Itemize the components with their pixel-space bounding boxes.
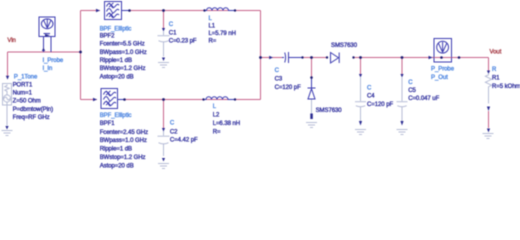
svg-text:Vin: Vin — [7, 38, 15, 44]
svg-text:C=120 pF: C=120 pF — [275, 85, 302, 91]
svg-text:BPF1: BPF1 — [100, 121, 116, 127]
svg-text:P_Probe: P_Probe — [431, 67, 455, 73]
svg-text:L=6.38 nH: L=6.38 nH — [213, 121, 240, 127]
svg-text:C: C — [169, 22, 174, 28]
svg-text:I_In: I_In — [43, 66, 53, 72]
svg-text:BPF_Elliptic: BPF_Elliptic — [100, 113, 132, 119]
svg-text:BWpass=1.0 GHz: BWpass=1.0 GHz — [100, 138, 147, 144]
svg-text:BPF_Elliptic: BPF_Elliptic — [100, 27, 132, 33]
svg-text:P_1Tone: P_1Tone — [14, 74, 38, 80]
svg-text:Astop=20 dB: Astop=20 dB — [100, 74, 134, 80]
svg-text:I_Probe: I_Probe — [43, 58, 64, 64]
svg-text:BWstop=1.2 GHz: BWstop=1.2 GHz — [100, 66, 146, 72]
svg-text:R=5 kOhm: R=5 kOhm — [492, 84, 520, 90]
svg-text:C=120 pF: C=120 pF — [367, 102, 394, 108]
svg-text:L1: L1 — [209, 24, 216, 30]
svg-text:R=: R= — [209, 39, 217, 45]
svg-text:L: L — [209, 16, 213, 22]
svg-text:C1: C1 — [169, 30, 177, 36]
svg-text:C: C — [170, 121, 175, 127]
svg-text:Vout: Vout — [490, 50, 502, 56]
svg-text:L: L — [213, 104, 217, 110]
svg-text:C5: C5 — [408, 88, 416, 94]
svg-text:Num=1: Num=1 — [13, 91, 33, 97]
svg-text:C: C — [275, 68, 280, 74]
svg-text:BPF2: BPF2 — [100, 34, 116, 40]
svg-text:BWpass=1.0 GHz: BWpass=1.0 GHz — [100, 50, 147, 56]
svg-text:Freq=RF GHz: Freq=RF GHz — [13, 115, 50, 121]
svg-text:Z=50 Ohm: Z=50 Ohm — [13, 99, 41, 105]
svg-text:SMS7630: SMS7630 — [316, 108, 343, 114]
svg-text:PORT1: PORT1 — [13, 82, 33, 88]
svg-text:Ripple=1 dB: Ripple=1 dB — [100, 147, 132, 153]
svg-text:C3: C3 — [275, 77, 283, 83]
svg-text:C2: C2 — [170, 129, 178, 135]
svg-text:P_Out: P_Out — [431, 75, 448, 81]
svg-text:SMS7630: SMS7630 — [331, 43, 358, 49]
svg-text:C4: C4 — [367, 94, 375, 100]
svg-text:C: C — [408, 80, 413, 86]
svg-text:Fcenter=5.5 GHz: Fcenter=5.5 GHz — [100, 42, 145, 48]
svg-text:R=: R= — [213, 129, 221, 135]
svg-text:C=0.23 pF: C=0.23 pF — [169, 39, 197, 45]
svg-text:P=dbmtow(Pin): P=dbmtow(Pin) — [13, 107, 54, 113]
svg-text:L2: L2 — [213, 112, 220, 118]
svg-text:C=0.047 uF: C=0.047 uF — [408, 96, 439, 102]
svg-text:C: C — [367, 85, 372, 91]
svg-text:Ripple=1 dB: Ripple=1 dB — [100, 58, 132, 64]
svg-text:BWstop=1.2 GHz: BWstop=1.2 GHz — [100, 155, 146, 161]
svg-text:R: R — [492, 67, 497, 73]
svg-text:L=5.79 nH: L=5.79 nH — [209, 31, 236, 37]
svg-text:Astop=20 dB: Astop=20 dB — [100, 163, 134, 169]
svg-text:C=4.42 pF: C=4.42 pF — [170, 138, 198, 144]
svg-text:Fcenter=2.45 GHz: Fcenter=2.45 GHz — [100, 130, 148, 136]
svg-text:R1: R1 — [492, 76, 500, 82]
